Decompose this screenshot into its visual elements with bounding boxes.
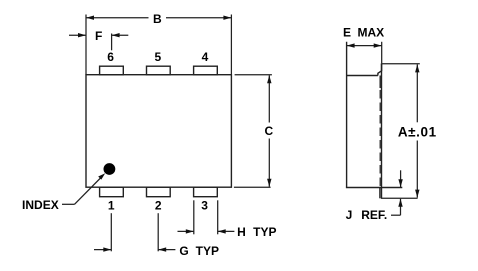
INDEX label xyxy=(22,198,59,212)
svg-text:E: E xyxy=(343,25,351,39)
dimension J down arrow xyxy=(398,170,402,187)
side view lead top bend xyxy=(378,64,382,76)
dimension G extension lines (pin 1 and pin 2 centers) xyxy=(111,213,158,251)
pin number 1 xyxy=(108,199,115,213)
pin 3 pad xyxy=(194,187,218,197)
package body (front view) xyxy=(86,75,231,188)
dimension B extension lines xyxy=(86,15,231,75)
dimension B label xyxy=(153,12,162,26)
pin 4 pad xyxy=(194,66,218,75)
dimension H label xyxy=(237,225,276,239)
svg-text:6: 6 xyxy=(107,50,114,64)
svg-text:3: 3 xyxy=(201,199,208,213)
svg-text:C: C xyxy=(264,124,273,138)
svg-text:2: 2 xyxy=(155,199,162,213)
side view lead (inner edge, solid top then dashed) xyxy=(379,76,381,188)
side view lead (solid outer edge) xyxy=(381,64,383,199)
svg-text:INDEX: INDEX xyxy=(22,198,59,212)
pin number 5 xyxy=(155,50,162,64)
pin number 6 xyxy=(107,50,114,64)
dimension A line with arrows xyxy=(415,64,419,197)
svg-text:TYP: TYP xyxy=(253,225,276,239)
dimension J label xyxy=(346,208,388,222)
pin number 3 xyxy=(201,199,208,213)
dimension E line with arrows xyxy=(347,43,382,47)
svg-text:MAX: MAX xyxy=(357,25,384,39)
pin 5 pad xyxy=(147,66,171,75)
svg-text:B: B xyxy=(153,12,162,26)
side view lead foot xyxy=(379,188,381,199)
dimension J up arrow and leader xyxy=(391,199,403,216)
svg-text:F: F xyxy=(95,29,102,43)
dimension H extension lines (pin 3 edges) xyxy=(194,200,218,234)
svg-text:1: 1 xyxy=(108,199,115,213)
dimension F label xyxy=(95,29,102,43)
svg-text:G: G xyxy=(179,244,188,258)
dimension C line with arrows xyxy=(267,75,271,187)
dimension H arrows xyxy=(178,229,235,233)
pin 2 pad xyxy=(147,187,171,197)
svg-text:A±.01: A±.01 xyxy=(398,124,437,139)
pin 6 pad xyxy=(100,66,124,75)
dimension A top extension line xyxy=(381,63,420,65)
dimension C extension lines xyxy=(234,75,272,188)
index dot xyxy=(104,163,116,175)
package body (side view) xyxy=(346,42,402,188)
dimension E extension line (right, lead edge) xyxy=(381,42,383,63)
dimension G label xyxy=(179,244,219,258)
dimension G arrows xyxy=(94,247,175,251)
index leader with arrow xyxy=(62,173,105,204)
svg-text:5: 5 xyxy=(155,50,162,64)
svg-text:H: H xyxy=(237,225,246,239)
dimension C label xyxy=(264,124,273,138)
svg-text:J: J xyxy=(346,208,353,222)
seating plane line xyxy=(381,197,418,199)
pin 1 pad xyxy=(100,187,124,197)
svg-text:4: 4 xyxy=(202,50,209,64)
dimension F arrows xyxy=(69,33,128,37)
svg-text:TYP: TYP xyxy=(196,244,219,258)
pin number 4 xyxy=(202,50,209,64)
svg-text:REF.: REF. xyxy=(361,208,387,222)
dimension E label xyxy=(343,25,384,39)
dimension A label xyxy=(398,124,437,139)
pin number 2 xyxy=(155,199,162,213)
dimension F extension line (pin 6 center) xyxy=(111,34,113,51)
dimension B line with arrows xyxy=(86,16,231,20)
